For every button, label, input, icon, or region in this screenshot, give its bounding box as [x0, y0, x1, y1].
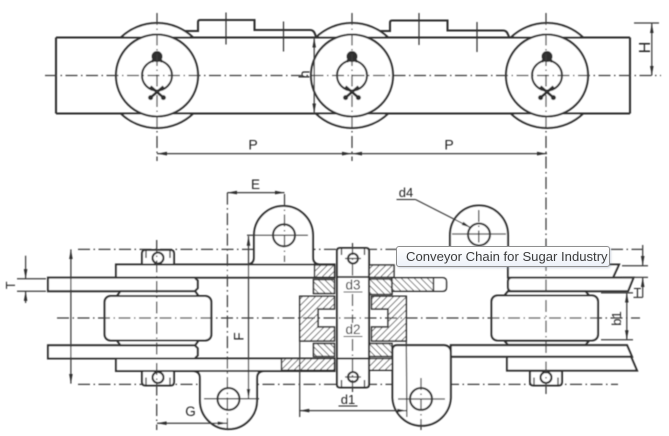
svg-text:d2: d2 [345, 322, 360, 337]
svg-text:E: E [251, 177, 260, 192]
svg-text:G: G [185, 404, 196, 419]
svg-text:P: P [248, 137, 257, 153]
svg-text:h: h [297, 70, 313, 78]
svg-text:H: H [637, 42, 654, 54]
svg-text:T: T [4, 281, 18, 289]
svg-text:d3: d3 [345, 278, 360, 293]
svg-text:F: F [232, 332, 247, 340]
svg-text:b1: b1 [609, 311, 624, 325]
svg-text:d1: d1 [341, 392, 355, 407]
svg-text:d4: d4 [399, 185, 413, 200]
svg-text:T: T [634, 286, 642, 300]
svg-text:P: P [444, 137, 453, 153]
